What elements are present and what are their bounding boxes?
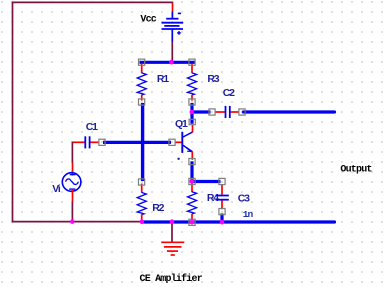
pin square C2 right bbox=[239, 109, 245, 115]
resistor R1 bbox=[137, 64, 146, 101]
label C2 bbox=[223, 87, 235, 99]
pin square R3 top bbox=[189, 59, 195, 65]
junction Vi-bottom bbox=[70, 219, 75, 224]
resistor R3 bbox=[188, 64, 197, 101]
pin square C1 right bbox=[99, 139, 105, 145]
wire node to collector blue thick bbox=[190, 112, 193, 124]
label R2 bbox=[152, 202, 164, 214]
pin square R1 bottom bbox=[139, 99, 145, 105]
wire bottom-left maroon bbox=[12, 221, 142, 223]
label Vi bbox=[52, 183, 61, 195]
svg-text:Output: Output bbox=[340, 165, 372, 176]
label R4 bbox=[207, 192, 219, 204]
wire C3 bottom stub blue thick bbox=[220, 214, 223, 222]
wire top rail blue thick bbox=[140, 61, 195, 64]
wire emitter to node blue thick bbox=[190, 161, 193, 181]
svg-text:CE Amplifier: CE Amplifier bbox=[140, 273, 203, 285]
pin square R4 bottom bbox=[189, 219, 195, 225]
pin square Q1 collector bbox=[189, 119, 195, 124]
label Q1 bbox=[175, 118, 188, 130]
capacitor C1 bbox=[73, 136, 100, 148]
stray dot bbox=[177, 158, 179, 160]
transistor Q1 bbox=[175, 125, 193, 160]
label C3 bbox=[238, 193, 250, 205]
label CE Amplifier bbox=[140, 273, 203, 285]
pin square R3 bottom bbox=[189, 99, 195, 105]
label Vcc bbox=[140, 14, 156, 25]
junction R2-bottom bbox=[140, 219, 145, 224]
junction battery-rail bbox=[169, 60, 174, 65]
svg-text:R3: R3 bbox=[207, 73, 219, 85]
wire Vi top maroon bbox=[71, 142, 73, 163]
svg-text:Vi: Vi bbox=[52, 183, 61, 195]
junction ground-bottom bbox=[170, 219, 175, 224]
svg-text:Vcc: Vcc bbox=[140, 14, 156, 25]
wire R3 bottom to node blue thick bbox=[190, 103, 193, 112]
pin square C3 top bbox=[219, 178, 225, 184]
wire ground stem maroon bbox=[171, 222, 173, 242]
wire Vi bottom maroon bbox=[71, 202, 73, 222]
svg-text:R1: R1 bbox=[157, 73, 169, 85]
wire divider vertical blue thick bbox=[141, 103, 144, 181]
resistor R2 bbox=[137, 184, 146, 222]
label R3 bbox=[207, 73, 219, 85]
capacitor C3 bbox=[216, 184, 229, 209]
svg-text:C3: C3 bbox=[238, 193, 250, 205]
capacitor C2 bbox=[215, 106, 240, 118]
pin square R1 top bbox=[139, 59, 145, 65]
pin square Q1 emitter bbox=[189, 159, 195, 165]
svg-text:C2: C2 bbox=[223, 87, 235, 99]
pin square Q1 base bbox=[169, 139, 175, 145]
wire top rail maroon bbox=[12, 1, 174, 3]
svg-text:Q1: Q1 bbox=[175, 118, 188, 130]
pin square R2 top bbox=[139, 179, 145, 185]
svg-text:R2: R2 bbox=[152, 202, 164, 214]
svg-text:1n: 1n bbox=[243, 209, 254, 220]
source Vi bbox=[62, 162, 81, 202]
battery V1 Vcc bbox=[162, 3, 184, 42]
pin square R4 top bbox=[189, 178, 195, 184]
label R1 bbox=[157, 73, 169, 85]
pin square C3 bottom bbox=[219, 209, 225, 215]
junction C3-bottom bbox=[220, 220, 225, 225]
junction emitter node bbox=[190, 179, 195, 184]
svg-text:R4: R4 bbox=[207, 192, 219, 204]
wire C2 to output blue thick bbox=[244, 110, 335, 113]
label Output bbox=[340, 165, 372, 176]
resistor R4 bbox=[188, 184, 197, 222]
pin square C2 left bbox=[209, 109, 215, 115]
wire bottom rail blue thick bbox=[142, 220, 335, 223]
ground bbox=[161, 242, 184, 255]
wire node to C3 top blue thick bbox=[191, 180, 221, 183]
value label 1n bbox=[243, 209, 254, 220]
label C1 bbox=[86, 121, 98, 133]
wire base horizontal blue thick bbox=[103, 141, 171, 144]
wire battery bottom maroon bbox=[171, 41, 173, 62]
wire left rail maroon bbox=[12, 2, 14, 223]
junction collector node bbox=[190, 110, 195, 115]
wire node to C2 blue thick bbox=[191, 110, 211, 113]
junction R4-bottom bbox=[190, 220, 195, 225]
svg-text:C1: C1 bbox=[86, 121, 98, 133]
